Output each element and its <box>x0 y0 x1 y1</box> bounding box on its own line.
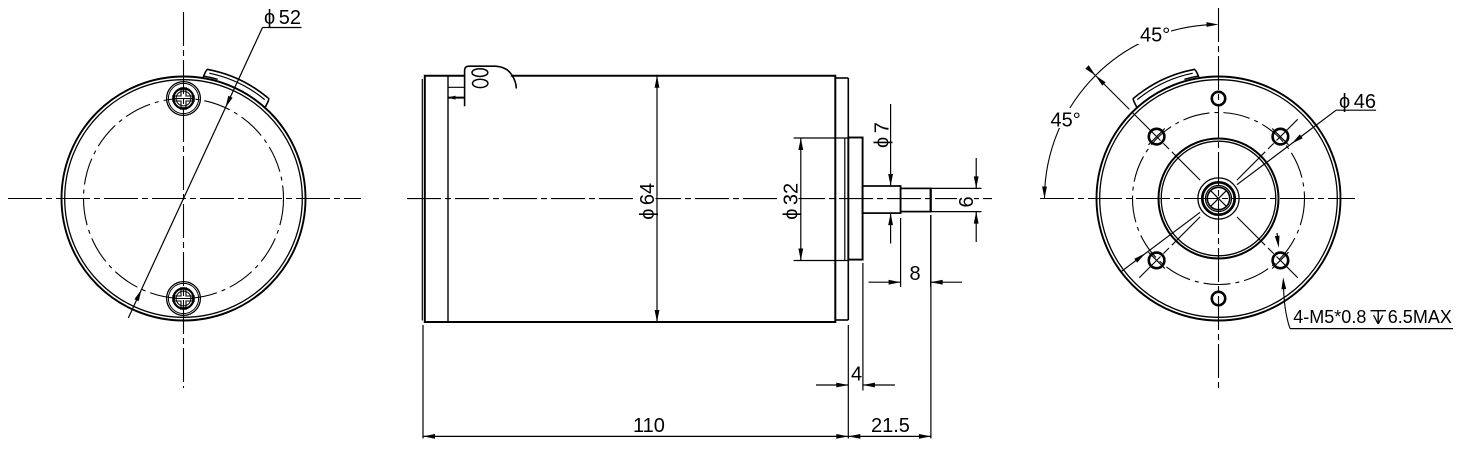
front view bolt circle dia 46 dashed <box>1133 113 1305 285</box>
dimension 6 line lower <box>975 212 977 242</box>
front view M5 hole upper-left <box>1149 129 1165 145</box>
dimension diameter 46 shoulder <box>1336 109 1376 111</box>
dimension diameter 52 arrow lower <box>134 289 141 301</box>
side view rear cap edge line <box>421 79 423 321</box>
front view shaft dia 7 circle <box>1206 186 1232 212</box>
angular dimension 45 text lower <box>1048 108 1082 128</box>
svg-text:45°: 45° <box>1140 25 1170 47</box>
svg-text:4-M5*0.8: 4-M5*0.8 <box>1293 307 1366 327</box>
front view motor body inner circle <box>1100 80 1338 318</box>
front view M5 hole lower-right <box>1273 253 1289 269</box>
dimension diameter 46 arrows <box>1292 134 1303 143</box>
dimension 21.5 line <box>848 435 931 437</box>
front view diagonal center line upper-left extended <box>1127 107 1201 181</box>
dimension diameter 7 line lower <box>890 213 892 243</box>
left view motor body outer circle <box>62 77 306 321</box>
side view hub inner line <box>844 138 846 260</box>
thread callout arrow upper <box>1277 233 1278 244</box>
front view through hole top <box>1212 92 1225 105</box>
front view pilot boss circle outer <box>1159 139 1279 259</box>
dimension diameter 32 extension lines <box>794 137 849 139</box>
svg-text:110: 110 <box>633 415 665 437</box>
front view shaft recess circle <box>1198 178 1239 219</box>
svg-text:6: 6 <box>956 196 978 207</box>
svg-text:ϕ32: ϕ32 <box>781 183 803 220</box>
dimension 21.5 extension line right <box>930 215 932 439</box>
side view shaft dia 7 section <box>863 186 901 213</box>
dimension diameter 32 line <box>800 138 802 261</box>
front view vertical center line <box>1218 8 1220 392</box>
dimension 8 extension lines <box>900 218 902 287</box>
front view horizontal center line <box>1040 198 1355 200</box>
front view shaft end cross <box>1211 191 1227 207</box>
front view shaft flat circle <box>1207 187 1229 209</box>
dimension diameter 64 text <box>636 181 656 220</box>
dimension 6 arrows <box>974 176 979 188</box>
dimension 110 extension line left <box>422 325 424 439</box>
front view motor body outer circle <box>1097 77 1341 321</box>
thread callout leader lower <box>1283 281 1290 329</box>
dimension diameter 46 leader and line <box>1237 110 1336 185</box>
front view pilot boss circle inner <box>1161 141 1276 256</box>
dimension diameter 52 leader line <box>128 28 262 319</box>
side view shaft flat 6 section <box>901 188 931 211</box>
front view connector tab <box>1131 65 1199 107</box>
side view motor body outline <box>425 76 836 322</box>
front view diagonal center line upper-right <box>1237 119 1298 180</box>
left view vertical center line <box>183 12 185 388</box>
dimension 8 arrows <box>889 280 901 285</box>
dimension diameter 32 arrows <box>798 138 803 150</box>
svg-text:ϕ52: ϕ52 <box>264 7 301 29</box>
dimension diameter 7 arrows <box>888 174 893 186</box>
svg-text:ϕ46: ϕ46 <box>1339 91 1376 113</box>
side view terminal mount line upper <box>448 86 465 88</box>
dimension 6 text <box>957 191 974 209</box>
svg-text:4: 4 <box>851 364 862 386</box>
side view terminal pin 2 <box>473 79 488 87</box>
angular dimension arrows <box>1207 22 1219 27</box>
side view terminal mount line lower <box>448 97 465 99</box>
svg-text:6.5MAX: 6.5MAX <box>1388 307 1452 327</box>
dimension 4 arrows <box>836 383 848 388</box>
front view M5 hole upper-right <box>1273 129 1289 145</box>
dimension 4 extension lines <box>847 325 849 439</box>
dimension diameter 52 shoulder <box>263 27 302 29</box>
dimension diameter 52 arrow upper <box>225 96 232 108</box>
dimension 21.5 arrows <box>848 434 860 439</box>
left view bolt circle dia 52 dashed <box>84 99 284 299</box>
left view top mounting screw <box>167 82 201 116</box>
front view through hole bottom <box>1212 292 1225 305</box>
side view rear cap joint line <box>447 76 449 322</box>
left view horizontal center line <box>8 198 361 200</box>
dimension diameter 64 arrows <box>655 76 660 88</box>
thread callout underline <box>1290 328 1453 330</box>
svg-text:21.5: 21.5 <box>871 415 910 437</box>
dimension 4 line <box>816 384 848 386</box>
side view front hub boss <box>848 138 862 260</box>
thread callout depth symbol <box>1371 311 1387 324</box>
angular dimension 45 text upper <box>1138 25 1172 44</box>
angular dimension 45 arc lower <box>1045 76 1096 199</box>
front view diagonal center line lower-left <box>1139 217 1200 278</box>
side view shaft end face <box>930 188 932 211</box>
side view terminal block outline <box>465 66 517 106</box>
side view terminal pin 1 <box>472 69 488 77</box>
dimension 110 arrows <box>423 434 435 439</box>
dimension diameter 7 line upper <box>890 104 892 186</box>
dimension 6 extension lines <box>931 187 982 189</box>
side view front end ring <box>835 77 848 79</box>
dimension diameter 64 line <box>656 76 658 322</box>
dimension 6 line upper <box>975 158 977 188</box>
dimension 110 line <box>423 435 848 437</box>
svg-text:8: 8 <box>910 263 921 285</box>
svg-text:ϕ64: ϕ64 <box>637 183 659 220</box>
left view bottom mounting screw <box>167 282 201 316</box>
front view M5 hole lower-left <box>1149 253 1165 269</box>
left view connector tab <box>203 65 271 107</box>
svg-text:45°: 45° <box>1051 110 1081 132</box>
dimension 8 line <box>869 281 901 283</box>
front view bearing circle bold <box>1202 182 1234 214</box>
angular dimension 45 arc upper <box>1096 25 1213 76</box>
dimension diameter 32 text <box>779 181 799 220</box>
left view motor body inner circle <box>65 80 303 318</box>
side view horizontal center line <box>407 198 992 200</box>
front view diagonal center line lower-right <box>1237 217 1298 278</box>
